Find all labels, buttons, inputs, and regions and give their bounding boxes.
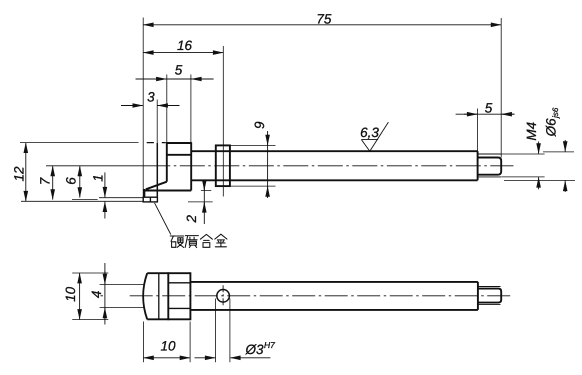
svg-text:1: 1 (91, 174, 106, 182)
dim 75: extension line right (500, 18, 502, 158)
svg-text:Ø6js6: Ø6js6 (543, 107, 560, 137)
main view: head upper-block left edge (166, 142, 168, 182)
main view: thread crest lines (478, 154, 501, 177)
svg-text:7: 7 (38, 177, 53, 185)
dim 1: upper arrow (104, 172, 106, 186)
main view: center line (170, 165, 513, 167)
svg-text:75: 75 (316, 12, 332, 27)
svg-text:5: 5 (175, 63, 183, 78)
bottom view: thread end block (478, 289, 501, 303)
svg-text:6,3: 6,3 (360, 125, 379, 140)
dim 2: extension lines (188, 191, 213, 202)
dim 3: extension line right (156, 100, 158, 144)
dim 3: dimension line with outside arrows (121, 105, 143, 107)
dim 16: extension line right (222, 46, 224, 197)
svg-text:6: 6 (64, 177, 79, 185)
main view: nose boundary vertical (156, 143, 158, 197)
bottom view: rounded nose arc (143, 273, 147, 319)
char zhi (quality) (185, 236, 198, 248)
svg-text:Ø3H7: Ø3H7 (245, 340, 276, 357)
leader line to carbide label (155, 203, 171, 235)
bottom view: cross hole circle (217, 290, 230, 303)
svg-text:5: 5 (485, 100, 493, 115)
dim 7/6: small extension lines (72, 198, 143, 200)
svg-text:16: 16 (177, 38, 193, 53)
bottom view: hex front edge (167, 272, 169, 320)
dim M4: vertical with outside arrows (538, 142, 540, 154)
main view: head taper diagonal (146, 182, 167, 190)
dim 4: vertical with outside arrows (104, 263, 106, 325)
svg-text:10: 10 (160, 339, 176, 354)
main view: thread shoulder (477, 151, 479, 180)
main view: shaft top edge (191, 150, 477, 152)
svg-text:3: 3 (147, 89, 155, 104)
main view: head bottom edge (144, 190, 191, 192)
dim D6: extension lines (504, 152, 575, 181)
dim 9: tick lines (230, 145, 276, 186)
dim 5 right: dimension line with outside arrows (456, 113, 515, 115)
bottom view: shaft bottom edge (190, 309, 478, 311)
dim 10 bottom: dimension line (143, 357, 190, 359)
dim 16: dimension line (143, 52, 223, 54)
dim 7: dimension line (52, 166, 54, 200)
dim 9: vertical line with outside arrows (267, 131, 269, 198)
dim 2: vertical line with outside arrows (203, 181, 205, 224)
dim 10 left (bottom view): extension lines (72, 273, 108, 320)
dim D6: vertical with outside arrows (564, 140, 566, 152)
dim 6: dimension line (79, 166, 81, 198)
bottom view: hex flat lines (168, 283, 190, 309)
dim 5 left: extension lines (167, 75, 191, 144)
bottom view: thread crest lines (478, 287, 501, 305)
bottom view: head right edge (189, 272, 191, 320)
dim 10 left: dimension line (79, 273, 81, 320)
dim D3: outside arrows (195, 357, 216, 359)
char ying (hard) (170, 236, 184, 248)
main view: carbide seat left edge (143, 189, 145, 197)
label: carbide (hard metal) characters (170, 234, 227, 247)
dim 12: bottom extension line (21, 200, 143, 202)
svg-text:4: 4 (89, 291, 104, 299)
bottom view: head bottom edge (147, 318, 190, 320)
main view: head top edge (166, 142, 191, 144)
dim 4: extension lines (100, 285, 144, 308)
dim 75: extension line left (142, 18, 144, 203)
dim 5 left: dimension line with outside arrows (136, 78, 214, 80)
svg-text:M4: M4 (524, 122, 539, 141)
bottom view: nose boundary line (158, 273, 160, 319)
bottom view: center line (101, 295, 104, 297)
dim 12: dimension line (25, 143, 27, 202)
dim 1: lower arrow and tail (104, 202, 106, 209)
dim 12: top extension line (20, 142, 139, 144)
dim 5 right: extension line (477, 109, 479, 152)
svg-text:9: 9 (252, 121, 267, 129)
dim M4: extension lines (501, 154, 544, 177)
char he (join) (200, 234, 212, 247)
surface finish symbol 6,3 (361, 122, 388, 151)
svg-text:2: 2 (184, 215, 199, 224)
main view: center extension line left (46, 165, 170, 167)
bottom view: hole vertical center line (222, 285, 224, 306)
svg-text:10: 10 (63, 286, 78, 302)
main view: thread end block (478, 158, 502, 175)
svg-text:12: 12 (12, 166, 27, 182)
dim D3: extension lines (216, 299, 230, 363)
main view: head right edge (190, 142, 192, 190)
dim 10 bottom: extension lines (143, 322, 190, 363)
char jin (metal) (215, 234, 227, 247)
bottom view: head top edge (147, 272, 190, 274)
main view: shaft bottom edge (191, 179, 477, 181)
main view: hex step line (167, 154, 191, 156)
dim 75: dimension line (143, 24, 501, 26)
bottom view: thread shoulder (477, 282, 479, 310)
main view: head top hidden dashes (147, 142, 166, 144)
main view: carbide insert box (143, 197, 157, 202)
bottom view: shaft top edge (190, 281, 478, 283)
main view: collar ring (216, 145, 230, 186)
